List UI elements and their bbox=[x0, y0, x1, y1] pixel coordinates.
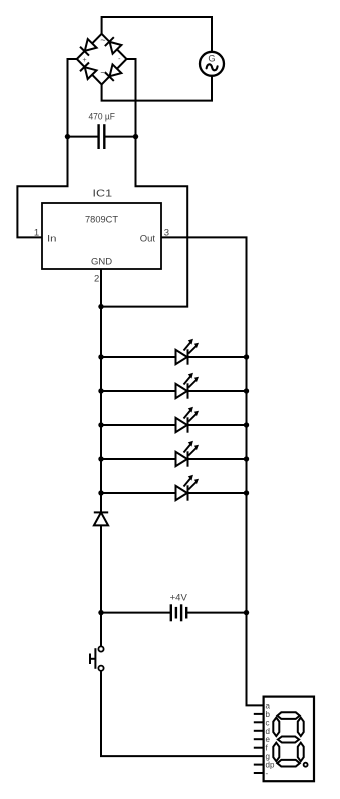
svg-text:~: ~ bbox=[100, 35, 105, 45]
svg-text:G: G bbox=[208, 54, 215, 64]
svg-text:3: 3 bbox=[164, 228, 169, 239]
svg-text:+4V: +4V bbox=[170, 592, 188, 603]
svg-text:1: 1 bbox=[34, 228, 39, 239]
svg-text:7809CT: 7809CT bbox=[85, 215, 118, 226]
svg-text:2: 2 bbox=[94, 274, 99, 285]
svg-text:Out: Out bbox=[140, 233, 156, 244]
svg-text:+: + bbox=[82, 57, 86, 64]
svg-text:~: ~ bbox=[100, 68, 105, 78]
svg-text:GND: GND bbox=[91, 257, 112, 268]
svg-text:-: - bbox=[266, 769, 269, 778]
svg-text:IC1: IC1 bbox=[93, 188, 113, 199]
svg-text:470 µF: 470 µF bbox=[88, 111, 115, 122]
svg-text:In: In bbox=[47, 233, 57, 244]
